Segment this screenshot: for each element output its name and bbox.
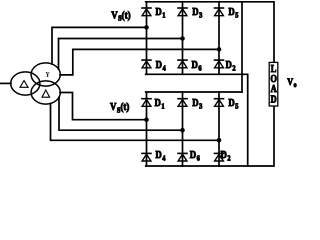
svg-text:D4: D4 <box>156 59 167 72</box>
diode D4 upper bridge <box>142 60 151 68</box>
diode D3 lower bridge <box>178 99 187 107</box>
svg-text:D4: D4 <box>155 150 166 163</box>
svg-text:D: D <box>271 94 277 105</box>
svg-text:L: L <box>271 63 277 74</box>
svg-text:D1: D1 <box>155 7 166 20</box>
diode D5 upper bridge <box>215 8 224 16</box>
svg-text:D5: D5 <box>228 7 239 20</box>
wire: Y secondary phase a to upper bridge leg 1 <box>52 27 147 64</box>
svg-text:D2: D2 <box>226 59 237 72</box>
wire: Y secondary phase b to upper bridge leg 2 <box>59 39 183 70</box>
node: upper bridge leg 1 phase junction <box>144 25 149 30</box>
transformer delta secondary winding <box>31 81 60 104</box>
diode D2 upper bridge <box>215 60 224 68</box>
wire: negative rail of upper bridge down to lower bridge bottom rail <box>146 74 248 166</box>
wire: lower bridge leg 3 <box>218 92 220 166</box>
wire: positive bus link from top rail down to lower bridge top rail <box>241 2 243 92</box>
node: upper bridge leg 3 phase junction <box>217 47 222 52</box>
svg-text:D3: D3 <box>192 7 203 20</box>
transformer wye secondary winding <box>31 63 60 86</box>
delta symbol of delta secondary winding <box>42 90 50 97</box>
wire: lower bridge leg 1 <box>146 92 148 166</box>
wire: delta secondary phase c to lower bridge leg 3 <box>51 104 220 141</box>
diode D3 upper bridge <box>178 8 187 16</box>
diode D4 lower bridge <box>142 153 151 161</box>
svg-text:VS(t): VS(t) <box>111 10 130 23</box>
svg-text:D6: D6 <box>190 150 201 163</box>
svg-text:Vo: Vo <box>287 77 296 90</box>
svg-text:D6: D6 <box>192 59 203 72</box>
svg-text:D2: D2 <box>221 150 232 163</box>
wire: upper bridge leg 3 <box>218 2 220 75</box>
diode D1 upper bridge <box>142 8 151 16</box>
diode D5 lower bridge <box>215 99 224 107</box>
svg-text:D5: D5 <box>228 97 239 110</box>
load box <box>269 62 278 106</box>
wire: Y secondary phase c to upper bridge leg 3 <box>60 49 219 75</box>
svg-text:Y: Y <box>45 72 50 80</box>
wire: lower bridge bottom rail to load bottom <box>146 106 274 166</box>
diode D6 lower bridge <box>178 153 187 161</box>
wire: positive bus top rail of upper bridge to load top <box>146 2 274 63</box>
node: lower bridge leg 3 phase junction <box>217 138 222 143</box>
delta symbol of primary winding <box>20 81 28 88</box>
wire: upper bridge leg 1 <box>146 2 148 75</box>
diode D6 upper bridge <box>178 60 187 68</box>
wire: delta secondary phase b to lower bridge leg 2 <box>59 97 183 130</box>
wire: primary feed line <box>0 82 11 84</box>
wire: lower bridge leg 2 <box>182 92 184 166</box>
diode D1 lower bridge <box>142 99 151 107</box>
node: lower bridge leg 1 phase junction <box>144 117 149 122</box>
diode D2 lower bridge <box>215 153 224 161</box>
node: lower bridge leg 2 phase junction <box>180 128 185 133</box>
svg-text:D1: D1 <box>155 97 166 110</box>
wire: delta secondary phase a to lower bridge leg 1 <box>60 93 147 120</box>
node: upper bridge leg 2 phase junction <box>180 36 185 41</box>
svg-text:O: O <box>270 73 277 84</box>
wire: lower bridge top rail <box>146 91 242 93</box>
wire: upper bridge leg 2 <box>182 2 184 75</box>
transformer primary delta winding <box>11 72 40 95</box>
svg-text:VS(t): VS(t) <box>110 101 129 114</box>
svg-text:D3: D3 <box>192 97 203 110</box>
